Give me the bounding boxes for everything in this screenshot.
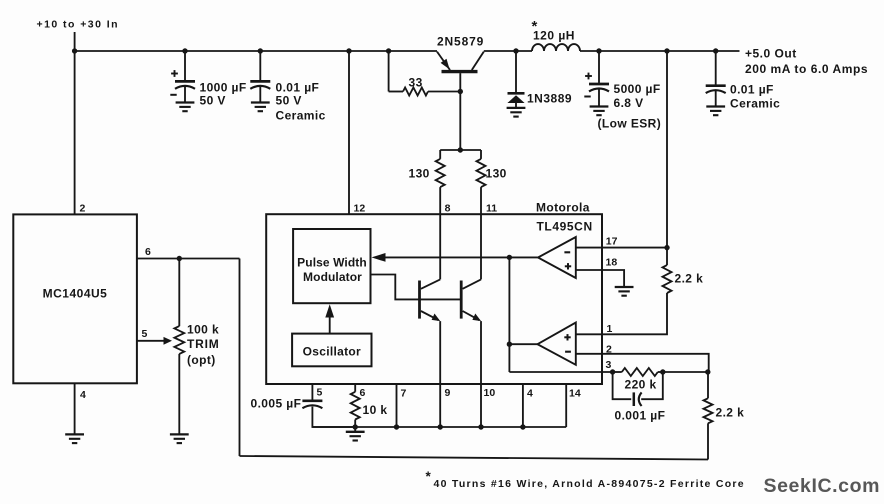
wire pin 6 lower — [354, 420, 356, 432]
label U2 pin 11 — [486, 203, 497, 215]
junction feedback rail — [664, 48, 669, 53]
capacitor C5 0.001uF — [634, 392, 642, 406]
arrow into PWM — [372, 253, 386, 262]
wire ground bus — [312, 426, 566, 428]
transistor Q3 emitter — [463, 311, 480, 320]
wire pin 7 — [396, 384, 398, 427]
ground C3 — [590, 107, 609, 116]
junction R1 rail — [386, 48, 391, 53]
label L1 ferrite note asterisk — [532, 18, 538, 35]
svg-text:6: 6 — [360, 387, 366, 399]
ground R8 — [346, 432, 365, 441]
wire C4 to ground — [715, 91, 717, 106]
label U1 pin 5 — [142, 328, 148, 340]
junction input rail — [72, 48, 77, 53]
wire R5 lead top — [666, 248, 668, 266]
wire pin3 net to R7 — [663, 371, 708, 373]
resistor R4 100k TRIM — [174, 326, 184, 354]
svg-text:2.2 k: 2.2 k — [675, 272, 704, 286]
svg-text:100 k: 100 k — [187, 323, 219, 337]
label C2 voltage 50 V — [276, 94, 302, 108]
wire R1 drop — [388, 51, 390, 92]
wire top rail left — [75, 50, 437, 52]
wire PWM base drive — [371, 275, 462, 300]
label U2 pin 6 — [360, 387, 366, 399]
svg-text:Oscillator: Oscillator — [303, 345, 361, 359]
wire R3 lead top — [480, 150, 482, 159]
wire R7 lead bottom — [707, 423, 709, 459]
svg-text:10: 10 — [484, 387, 496, 399]
junction pin 9 bus — [438, 424, 443, 429]
label C5 value 0.001 uF — [615, 409, 666, 423]
transistor Q3 emitter arrow — [472, 314, 481, 322]
label PWM line 2 — [303, 270, 362, 284]
wire R2 to pin 8 — [439, 187, 441, 279]
op-amp U2a error amp — [538, 237, 576, 278]
junction pin12 rail — [346, 48, 351, 53]
label U1 pin 4 — [80, 389, 86, 401]
transistor Q3 collector — [463, 279, 481, 288]
svg-text:Pulse Width: Pulse Width — [297, 256, 367, 270]
junction C4 rail — [713, 48, 718, 53]
junction C1 rail — [182, 48, 187, 53]
ground D1 — [507, 108, 526, 117]
label U2 pin 10 — [484, 387, 496, 399]
svg-text:12: 12 — [354, 203, 366, 215]
svg-text:33: 33 — [409, 76, 423, 90]
wire pin 5 lower — [312, 407, 355, 427]
block Oscillator — [292, 334, 371, 367]
svg-text:Modulator: Modulator — [303, 270, 362, 284]
label U2 pin 17 — [606, 236, 618, 248]
svg-text:0.001 µF: 0.001 µF — [615, 409, 666, 423]
capacitor C6 0.005uF — [302, 401, 322, 408]
svg-text:50 V: 50 V — [276, 94, 302, 108]
svg-text:*: * — [426, 469, 432, 484]
wire divider tee — [440, 149, 481, 151]
op-amp U2 TL495CN box — [266, 214, 602, 384]
label R5 value 2.2 k — [675, 272, 704, 286]
svg-text:2N5879: 2N5879 — [437, 35, 484, 49]
svg-text:17: 17 — [606, 236, 618, 248]
wire comparator bus — [508, 257, 510, 372]
label U1 pin 2 — [80, 203, 86, 215]
wire Q1 base drop — [459, 73, 461, 150]
transistor Q1 emitter arrow — [441, 59, 450, 70]
diode D1 cathode bar — [508, 92, 525, 95]
ground C4 — [706, 107, 725, 116]
capacitor C3 5000uF — [584, 73, 609, 97]
wire pin 14 — [565, 384, 567, 427]
svg-text:+10 to +30 In: +10 to +30 In — [37, 19, 119, 31]
svg-text:2: 2 — [606, 344, 612, 356]
label Q1 2N5879 — [437, 35, 484, 49]
junction C3 rail — [596, 48, 601, 53]
note asterisk — [426, 469, 432, 484]
label C1 voltage 50 V — [200, 94, 226, 108]
label C3 Low ESR — [598, 117, 662, 131]
label U2a plus — [565, 263, 571, 269]
label U2 TL495CN — [537, 220, 593, 234]
wire top rail mid — [484, 50, 532, 52]
resistor R3 130 — [477, 159, 486, 187]
svg-text:2: 2 — [80, 203, 86, 215]
label U2 pin 4 — [527, 388, 533, 400]
capacitor C4 lead — [715, 51, 717, 85]
label PWM line 1 — [297, 256, 367, 270]
capacitor C1 1000uF lead — [184, 51, 186, 80]
label R4 opt — [187, 353, 216, 367]
svg-text:3: 3 — [606, 359, 612, 371]
svg-text:0.01 µF: 0.01 µF — [730, 83, 774, 97]
transistor Q1 collector — [472, 52, 484, 70]
wire R6 lead right — [658, 371, 663, 373]
wire Q2 emitter pin 9 — [439, 321, 441, 427]
label D1 1N3889 — [527, 92, 572, 106]
svg-text:5000 µF: 5000 µF — [614, 82, 661, 96]
label R1 value 33 — [409, 76, 423, 90]
label C2 value 0.01 uF — [276, 81, 320, 95]
wire top rail right — [580, 50, 740, 52]
svg-text:130: 130 — [486, 167, 507, 181]
node VOUT label current — [745, 62, 868, 76]
ground C1 — [176, 103, 195, 112]
label U2 pin 5 — [317, 387, 323, 399]
junction pin 4 bus — [520, 424, 525, 429]
wiper arrow R4 — [164, 337, 173, 345]
resistor R2 130 — [436, 159, 445, 187]
svg-text:Ceramic: Ceramic — [276, 109, 326, 123]
label U2 pin 8 — [445, 203, 451, 215]
svg-text:SeekIC.com: SeekIC.com — [764, 475, 881, 497]
svg-text:MC1404U5: MC1404U5 — [43, 287, 108, 301]
capacitor C4 0.01uF — [706, 86, 726, 93]
junction comparator bus top — [507, 255, 512, 260]
svg-text:120 µH: 120 µH — [533, 29, 575, 43]
svg-text:1N3889: 1N3889 — [527, 92, 572, 106]
watermark SeekIC.com — [764, 475, 881, 497]
wire C5 left leg — [613, 372, 632, 399]
wire U1 pin 6 — [137, 258, 240, 260]
wire pin 2 — [576, 354, 709, 372]
wire R7 lead top — [707, 372, 709, 398]
wire pin 4 — [522, 384, 524, 427]
capacitor C3 lead — [598, 51, 600, 83]
label U2 pin 12 — [354, 203, 366, 215]
label C6 value 0.005 uF — [251, 397, 302, 411]
label U1 MC1404U5 — [43, 287, 108, 301]
label R3 value 130 — [486, 167, 507, 181]
block Pulse Width Modulator — [293, 229, 370, 303]
label C3 voltage 6.8 V — [614, 96, 644, 110]
wire C3 to ground — [598, 89, 600, 106]
svg-text:5: 5 — [317, 387, 323, 399]
junction pin 7 bus — [394, 424, 399, 429]
junction pin 17 — [664, 245, 669, 250]
wire C5 right leg — [641, 372, 663, 399]
label U2 pin 2 — [606, 344, 612, 356]
svg-text:50 V: 50 V — [200, 94, 226, 108]
junction C2 rail — [258, 48, 263, 53]
svg-text:(opt): (opt) — [187, 353, 216, 367]
ground U1 pin 4 — [65, 434, 84, 443]
label U2b plus — [564, 334, 570, 340]
junction pin 6 bus — [353, 424, 358, 429]
svg-text:Motorola: Motorola — [536, 201, 590, 215]
svg-text:1: 1 — [607, 323, 613, 335]
transistor Q3 base bar — [460, 281, 463, 319]
wire feedback riser — [666, 51, 668, 248]
label U2 pin 7 — [401, 388, 407, 400]
wire R6 lead left — [613, 371, 622, 373]
label R6 value 220 k — [625, 378, 657, 392]
svg-text:4: 4 — [80, 389, 86, 401]
wire U2b output — [509, 343, 537, 345]
note ferrite core — [434, 478, 745, 490]
wire Q3 emitter pin 10 — [480, 321, 482, 427]
label C1 value 1000 uF — [200, 81, 247, 95]
wire U1 pin 2 riser — [74, 51, 76, 214]
svg-text:11: 11 — [486, 203, 497, 215]
wire R4 lead bottom — [178, 354, 180, 434]
svg-text:6: 6 — [145, 246, 151, 258]
svg-text:220 k: 220 k — [625, 378, 657, 392]
label U2 pin 1 — [607, 323, 613, 335]
wire R1 lead left — [389, 91, 403, 93]
label U2 pin 18 — [606, 257, 618, 269]
label U2 pin 9 — [445, 387, 451, 399]
junction pin 6 pot — [177, 256, 182, 261]
wire C1 to ground — [184, 87, 186, 102]
junction pin 10 bus — [478, 424, 483, 429]
svg-text:2.2 k: 2.2 k — [716, 406, 745, 420]
diode D1 1N3889 — [507, 95, 524, 103]
label R8 value 10 k — [363, 403, 388, 417]
label U2 pin 3 — [606, 359, 612, 371]
resistor R1 33 — [403, 88, 428, 96]
svg-text:18: 18 — [606, 257, 618, 269]
label R4 TRIM — [187, 337, 220, 351]
svg-text:TRIM: TRIM — [187, 337, 220, 351]
label U2 pin 14 — [569, 388, 581, 400]
svg-text:14: 14 — [569, 388, 581, 400]
svg-text:4: 4 — [527, 388, 533, 400]
junction pin 3 — [610, 369, 615, 374]
label Oscillator — [303, 345, 361, 359]
svg-text:1000 µF: 1000 µF — [200, 81, 247, 95]
transistor Q2 base bar — [418, 281, 421, 319]
wire U1 pin 5 — [137, 340, 166, 342]
svg-text:8: 8 — [445, 203, 451, 215]
wire pin 6 upper — [354, 384, 356, 392]
wire comparator to PWM — [385, 256, 538, 258]
op-amp U1 MC1404U5 box — [13, 214, 137, 383]
wire oscillator to PWM — [329, 314, 331, 334]
resistor R8 10k — [351, 392, 360, 420]
resistor R5 2.2k — [663, 265, 672, 293]
wire C2 to ground — [259, 87, 261, 102]
wire D1 to ground — [515, 103, 517, 108]
label R4 value 100 k — [187, 323, 219, 337]
junction R6 right — [660, 369, 665, 374]
junction comparator bus bottom — [507, 342, 512, 347]
svg-text:TL495CN: TL495CN — [537, 220, 593, 234]
inductor L1 120uH — [532, 44, 580, 51]
svg-text:+5.0 Out: +5.0 Out — [745, 47, 797, 61]
wire divider drop — [239, 259, 241, 457]
transistor Q2 emitter — [421, 311, 439, 320]
wire D1 lead — [515, 51, 517, 93]
wire bottom run — [240, 456, 709, 460]
wire R4 lead top — [178, 259, 180, 327]
node VOUT label +5.0 Out — [745, 47, 797, 61]
label C2 Ceramic — [276, 109, 326, 123]
svg-text:7: 7 — [401, 388, 407, 400]
wire R3 to pin 11 — [480, 187, 482, 279]
junction R7 top — [705, 369, 710, 374]
ground pin 18 — [615, 287, 634, 296]
svg-text:10 k: 10 k — [363, 403, 388, 417]
label C3 value 5000 uF — [614, 82, 661, 96]
svg-text:6.8 V: 6.8 V — [614, 96, 644, 110]
junction D1 rail — [513, 48, 518, 53]
op-amp U2b error amp — [538, 323, 576, 365]
arrow oscillator up — [325, 304, 334, 317]
capacitor C2 0.01uF lead — [259, 51, 261, 80]
label C4 Ceramic — [730, 97, 780, 111]
label U1 pin 6 — [145, 246, 151, 258]
label U2a minus — [564, 251, 570, 253]
transistor Q2 emitter arrow — [432, 314, 441, 322]
svg-text:200 mA to 6.0 Amps: 200 mA to 6.0 Amps — [745, 62, 868, 76]
wire pin 17 — [576, 247, 667, 249]
resistor R7 2.2k — [704, 398, 713, 423]
wire R1 lead right — [428, 91, 460, 93]
junction R1 base — [458, 89, 463, 94]
ground C2 — [251, 103, 270, 112]
svg-text:(Low ESR): (Low ESR) — [598, 117, 662, 131]
wire R5 lead bottom — [576, 293, 667, 334]
wire R2 lead top — [439, 150, 441, 159]
wire pin 18 — [576, 270, 624, 287]
svg-text:0.005 µF: 0.005 µF — [251, 397, 302, 411]
label R2 value 130 — [409, 167, 430, 181]
svg-text:130: 130 — [409, 167, 430, 181]
svg-text:0.01 µF: 0.01 µF — [276, 81, 320, 95]
svg-text:5: 5 — [142, 328, 148, 340]
wire U1 pin 4 to ground — [74, 383, 76, 434]
svg-text:40 Turns #16 Wire, Arnold A-89: 40 Turns #16 Wire, Arnold A-894075-2 Fer… — [434, 478, 745, 490]
wire pin 12 riser — [348, 51, 350, 214]
label L1 value 120 uH — [533, 29, 575, 43]
capacitor C2 0.01uF — [250, 81, 270, 88]
ground R4 — [170, 434, 189, 443]
transistor Q2 collector — [421, 279, 440, 288]
label R7 value 2.2 k — [716, 406, 745, 420]
label U2 Motorola — [536, 201, 590, 215]
transistor Q1 emitter — [437, 52, 450, 70]
wire pin 3 — [509, 371, 612, 373]
wire input stub — [74, 32, 76, 51]
svg-text:Ceramic: Ceramic — [730, 97, 780, 111]
label U2b minus — [565, 351, 571, 353]
wire pin 5 upper — [311, 384, 313, 400]
capacitor C1 1000uF — [170, 70, 195, 95]
label C4 value 0.01 uF — [730, 83, 774, 97]
svg-text:9: 9 — [445, 387, 451, 399]
node VIN label +10 to +30 In — [37, 19, 119, 31]
junction base divider — [458, 147, 463, 152]
transistor Q1 base bar — [442, 70, 478, 73]
resistor R6 220k — [622, 368, 658, 376]
